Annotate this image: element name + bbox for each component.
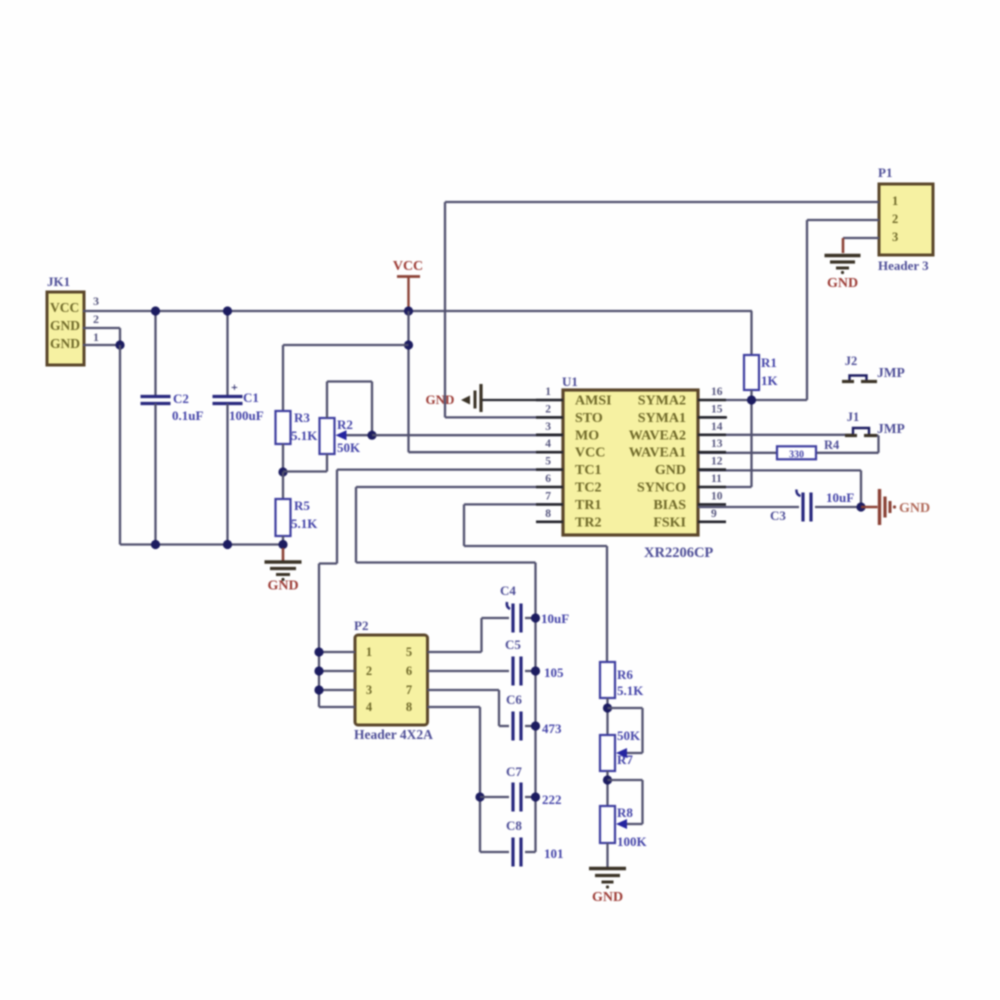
svg-text:U1: U1	[562, 374, 578, 389]
svg-text:222: 222	[542, 792, 562, 807]
svg-text:7: 7	[545, 490, 551, 502]
svg-text:+: +	[231, 380, 238, 394]
svg-text:5.1K: 5.1K	[291, 428, 318, 443]
svg-text:Header 3: Header 3	[878, 258, 929, 273]
svg-text:TC2: TC2	[575, 481, 601, 496]
svg-text:TR1: TR1	[575, 498, 601, 513]
svg-text:J2: J2	[845, 354, 858, 368]
svg-text:P1: P1	[878, 165, 892, 180]
svg-text:2: 2	[892, 212, 898, 226]
svg-text:2: 2	[93, 312, 99, 326]
svg-text:5.1K: 5.1K	[617, 683, 644, 698]
svg-text:JK1: JK1	[47, 274, 70, 289]
svg-text:WAVEA2: WAVEA2	[629, 428, 686, 443]
svg-text:6: 6	[406, 664, 412, 678]
svg-text:TR2: TR2	[575, 515, 601, 530]
svg-text:R1: R1	[761, 355, 777, 370]
svg-text:SYMA1: SYMA1	[638, 411, 686, 426]
svg-text:GND: GND	[50, 336, 80, 351]
svg-text:R4: R4	[824, 438, 840, 452]
svg-text:3: 3	[545, 421, 551, 433]
svg-text:5.1K: 5.1K	[291, 516, 318, 531]
svg-text:JMP: JMP	[877, 365, 905, 380]
svg-text:4: 4	[366, 700, 373, 714]
svg-text:6: 6	[545, 473, 551, 485]
svg-text:100uF: 100uF	[229, 408, 264, 423]
svg-text:8: 8	[406, 700, 412, 714]
svg-text:MO: MO	[575, 428, 599, 443]
svg-text:SYMA2: SYMA2	[638, 394, 686, 409]
svg-text:C5: C5	[505, 637, 521, 652]
svg-text:13: 13	[711, 438, 723, 450]
svg-text:14: 14	[711, 421, 723, 433]
svg-text:10uF: 10uF	[541, 611, 569, 626]
svg-text:5: 5	[545, 456, 551, 468]
svg-text:50K: 50K	[337, 440, 361, 455]
svg-text:SYNCO: SYNCO	[637, 481, 686, 496]
svg-text:C6: C6	[506, 692, 522, 707]
svg-text:TC1: TC1	[575, 463, 601, 478]
svg-text:10uF: 10uF	[826, 490, 854, 505]
svg-text:C3: C3	[770, 508, 786, 523]
svg-text:1K: 1K	[761, 373, 779, 388]
svg-text:1: 1	[93, 330, 99, 344]
svg-text:10: 10	[711, 490, 723, 502]
svg-text:GND: GND	[899, 501, 930, 516]
svg-text:Header 4X2A: Header 4X2A	[354, 727, 433, 742]
svg-text:7: 7	[406, 683, 412, 697]
svg-text:11: 11	[711, 473, 722, 485]
svg-text:WAVEA1: WAVEA1	[629, 446, 686, 461]
svg-text:3: 3	[892, 230, 898, 244]
svg-text:9: 9	[711, 508, 717, 520]
svg-text:BIAS: BIAS	[653, 498, 686, 513]
svg-text:XR2206CP: XR2206CP	[644, 545, 713, 561]
svg-text:C8: C8	[506, 818, 522, 833]
svg-text:R2: R2	[337, 417, 353, 432]
svg-text:1: 1	[366, 645, 372, 659]
svg-text:5: 5	[406, 645, 412, 659]
svg-text:15: 15	[711, 403, 723, 415]
svg-text:R3: R3	[294, 410, 310, 425]
svg-text:473: 473	[542, 721, 562, 736]
svg-text:R5: R5	[294, 498, 310, 513]
svg-text:4: 4	[545, 438, 551, 450]
svg-text:J1: J1	[847, 410, 860, 424]
svg-text:2: 2	[366, 664, 372, 678]
svg-text:0.1uF: 0.1uF	[172, 408, 203, 423]
svg-text:C4: C4	[500, 583, 516, 598]
svg-text:2: 2	[545, 403, 551, 415]
svg-text:R8: R8	[617, 805, 633, 820]
svg-text:FSKI: FSKI	[653, 515, 686, 530]
svg-text:AMSI: AMSI	[575, 394, 612, 409]
svg-text:3: 3	[366, 683, 372, 697]
svg-text:JMP: JMP	[877, 421, 905, 436]
svg-text:VCC: VCC	[393, 259, 423, 274]
svg-text:105: 105	[544, 665, 564, 680]
svg-text:C7: C7	[506, 764, 522, 779]
svg-text:GND: GND	[655, 463, 686, 478]
svg-text:VCC: VCC	[50, 300, 79, 315]
svg-text:16: 16	[711, 386, 723, 398]
svg-text:GND: GND	[426, 392, 455, 407]
svg-text:VCC: VCC	[575, 446, 605, 461]
svg-text:GND: GND	[50, 318, 80, 333]
svg-text:GND: GND	[267, 579, 298, 594]
svg-text:12: 12	[711, 456, 723, 468]
svg-text:P2: P2	[354, 618, 368, 633]
svg-text:330: 330	[789, 450, 804, 461]
svg-text:50K: 50K	[617, 728, 641, 743]
svg-text:C2: C2	[173, 391, 189, 406]
svg-text:C1: C1	[243, 390, 259, 405]
svg-text:R6: R6	[617, 667, 633, 682]
svg-text:100K: 100K	[617, 834, 648, 849]
svg-text:GND: GND	[592, 890, 623, 905]
svg-text:GND: GND	[827, 276, 858, 291]
svg-text:3: 3	[93, 294, 99, 308]
svg-text:101: 101	[544, 846, 564, 861]
svg-text:STO: STO	[575, 411, 603, 426]
svg-text:1: 1	[892, 194, 898, 208]
svg-text:8: 8	[545, 508, 551, 520]
svg-text:1: 1	[545, 386, 551, 398]
